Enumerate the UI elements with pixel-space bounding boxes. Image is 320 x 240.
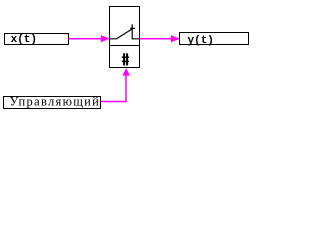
svg-text:y(t): y(t) <box>188 35 214 47</box>
svg-text:Управляющий: Управляющий <box>10 95 101 109</box>
svg-text:x(t): x(t) <box>11 34 37 46</box>
